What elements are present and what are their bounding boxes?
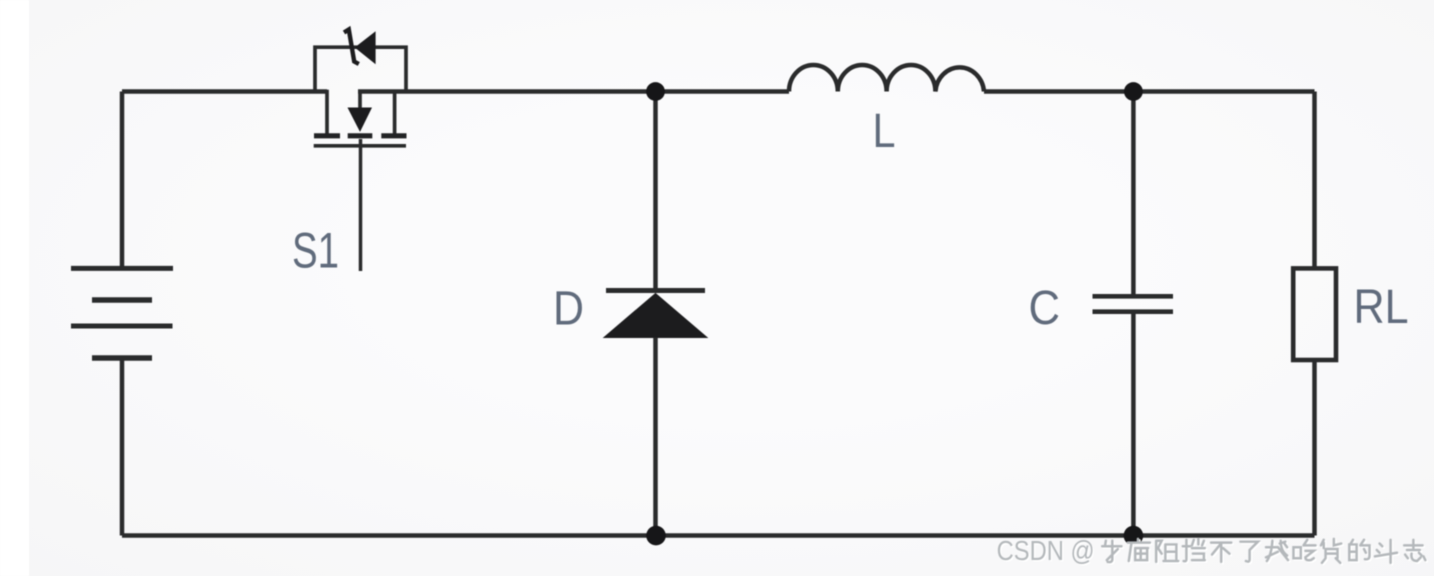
wire: right rail lower (from RL) — [1312, 360, 1317, 536]
svg-text:S1: S1 — [292, 223, 339, 279]
node: diode junction (bottom) — [646, 526, 666, 546]
wire: cap lower lead — [1131, 312, 1136, 536]
wire: body lead — [358, 92, 362, 111]
gate line — [314, 144, 406, 148]
wire: top rail left segment (battery to MOSFET drain) — [122, 89, 327, 94]
diode: body diode (points left) — [357, 34, 375, 63]
wire: bottom rail — [122, 533, 1315, 538]
node: switch/diode junction (top) — [646, 82, 665, 101]
capacitor C — [1093, 92, 1174, 536]
channel contact bars — [314, 133, 407, 138]
cap plate bottom — [1093, 309, 1174, 314]
cathode bar — [606, 288, 705, 293]
node: inductor/cap junction (top) — [1124, 82, 1143, 101]
node: cap junction (bottom) — [1124, 526, 1144, 546]
white page margin strip — [0, 0, 29, 576]
battery plate 2 (short, -) — [92, 297, 152, 303]
wire: gate lead — [359, 139, 363, 271]
svg-text:C: C — [1029, 282, 1061, 335]
svg-text:L: L — [873, 105, 896, 158]
wire: top rail (inductor to capacitor/load corner) — [984, 89, 1315, 94]
battery plate 3 (long, +) — [71, 324, 173, 329]
substrate arrow (points down) — [348, 108, 371, 131]
wire: top rail right segment (MOSFET to inductor) — [358, 89, 789, 94]
svg-text:CSDN @: CSDN @ — [997, 535, 1095, 566]
svg-text:RL: RL — [1354, 281, 1409, 334]
inductor L — [789, 65, 984, 92]
battery B1 — [71, 268, 173, 358]
resistor RL — [1293, 268, 1336, 360]
wire: left rail upper (battery + lead) — [120, 92, 125, 269]
wire: left rail lower (battery - lead) — [120, 358, 125, 536]
battery plate 1 (long, +) — [71, 266, 173, 271]
cap plate top — [1093, 294, 1174, 299]
wire: drain lead — [325, 90, 329, 134]
wire: right rail upper (to RL) — [1312, 92, 1317, 269]
anode triangle — [604, 294, 707, 338]
wire: diode upper lead — [653, 92, 658, 291]
svg-text:D: D — [553, 283, 584, 336]
wire: body-diode loop — [315, 47, 406, 91]
diode D (freewheel, cathode up) — [604, 92, 707, 536]
wire: cap upper lead — [1131, 92, 1136, 297]
wire: diode lower lead — [653, 338, 658, 536]
battery plate 4 (short, -) — [92, 355, 152, 361]
transistor S1 (MOSFET switch with body diode) — [314, 30, 407, 272]
wire: source lead — [393, 90, 397, 134]
